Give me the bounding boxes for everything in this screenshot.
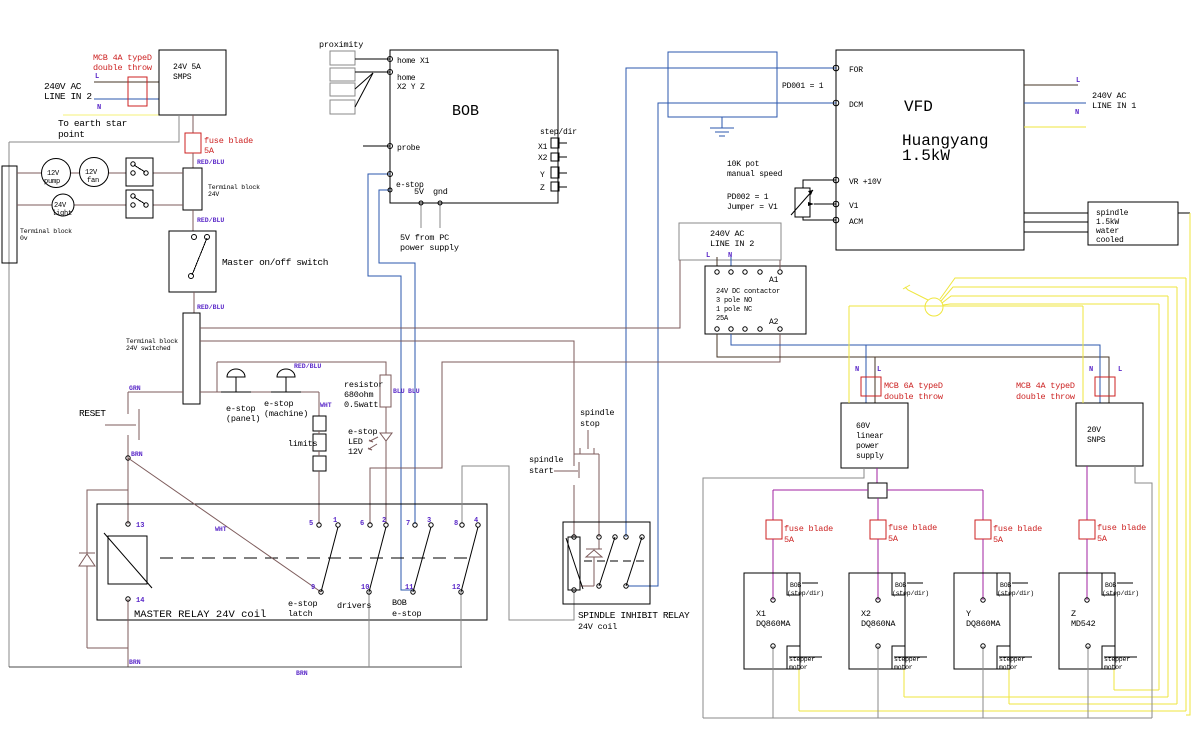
svg-text:X2: X2 — [538, 154, 548, 163]
spindle relay coil — [568, 537, 580, 590]
svg-text:X1: X1 — [756, 609, 766, 619]
svg-text:fuse blade: fuse blade — [784, 524, 833, 534]
svg-text:5A: 5A — [993, 535, 1004, 545]
e-stop (machine) contact — [271, 391, 301, 393]
svg-text:MD542: MD542 — [1071, 619, 1096, 629]
svg-text:5A: 5A — [1097, 534, 1108, 544]
svg-text:RED/BLU: RED/BLU — [197, 217, 224, 224]
svg-text:L: L — [95, 73, 99, 81]
svg-text:MCB 4A typeD: MCB 4A typeD — [1016, 381, 1075, 391]
svg-text:stepper: stepper — [999, 656, 1025, 663]
svg-text:proximity: proximity — [319, 40, 363, 50]
svg-text:24V coil: 24V coil — [578, 622, 617, 632]
svg-text:20V: 20V — [1087, 426, 1101, 435]
svg-text:BOB: BOB — [1000, 582, 1011, 589]
svg-text:GRN: GRN — [129, 385, 141, 392]
svg-text:N: N — [1089, 366, 1093, 374]
svg-text:fan: fan — [87, 177, 99, 185]
wire probe stub — [363, 145, 390, 147]
svg-text:BOB: BOB — [392, 598, 407, 608]
svg-text:BOB: BOB — [895, 582, 906, 589]
wire pin 14 to BRN rail — [127, 599, 129, 667]
wire FOR (blue) to spindle relay — [626, 68, 836, 537]
e-stop (panel) dome — [227, 369, 245, 377]
coil diagonal — [566, 538, 583, 589]
spindle 1.5kW water cooled — [1088, 202, 1178, 245]
svg-text:680ohm: 680ohm — [344, 390, 374, 400]
wire to master switch — [192, 210, 194, 231]
svg-text:power: power — [856, 442, 879, 451]
svg-text:240V AC: 240V AC — [1092, 91, 1126, 101]
svg-text:RED/BLU: RED/BLU — [294, 363, 321, 370]
spindle start NO contact — [573, 454, 575, 466]
wire pin 12 down — [460, 592, 462, 667]
earth star circle — [925, 298, 943, 316]
svg-text:BOB: BOB — [790, 582, 801, 589]
wire A1 stub — [779, 260, 781, 269]
svg-text:spindle: spindle — [580, 408, 614, 418]
svg-text:gnd: gnd — [433, 187, 448, 197]
step/dir pin boxes X1 X2 Y Z — [551, 138, 559, 148]
e-stop (machine) dome — [277, 369, 295, 377]
contact 10-2 — [369, 527, 386, 592]
switch box pump/fan — [126, 158, 153, 186]
ground symbol — [721, 117, 723, 128]
switch contacts light — [131, 194, 135, 198]
wire 5V stub — [420, 203, 422, 228]
wire proximity diagonals — [355, 73, 373, 89]
svg-text:Jumper = V1: Jumper = V1 — [727, 203, 778, 212]
svg-text:Terminal block: Terminal block — [126, 338, 178, 345]
svg-text:Z: Z — [540, 184, 545, 193]
svg-text:12V: 12V — [47, 170, 60, 178]
spindle relay diode wiring — [598, 540, 600, 549]
VFD pins — [833, 65, 839, 71]
svg-text:BLU: BLU — [393, 388, 405, 395]
wire 24V switched to spindle stop — [200, 341, 574, 454]
svg-text:X2 Y Z: X2 Y Z — [397, 83, 425, 92]
diode symbol — [586, 548, 602, 550]
svg-text:5A: 5A — [784, 535, 795, 545]
svg-text:1.5kW: 1.5kW — [902, 147, 950, 165]
svg-text:L: L — [877, 366, 881, 374]
svg-text:latch: latch — [288, 609, 313, 619]
svg-text:1 pole NC: 1 pole NC — [716, 306, 752, 314]
LED e-stop 12V — [380, 432, 392, 434]
svg-text:manual speed: manual speed — [727, 170, 783, 179]
svg-text:13: 13 — [136, 522, 144, 530]
MCB 6A typeD — [861, 377, 881, 396]
svg-text:MASTER RELAY 24V coil: MASTER RELAY 24V coil — [134, 609, 266, 621]
wire N branch to MCB 6A (blue) — [865, 345, 867, 403]
wire left 0V rail — [8, 142, 10, 667]
wire to limits — [318, 392, 320, 416]
svg-text:stepper: stepper — [894, 656, 920, 663]
wire 12V rail — [17, 172, 42, 174]
pot wiper arrow — [791, 190, 813, 215]
flyback diode symbol — [79, 552, 95, 554]
driver Z MD542 — [1059, 573, 1115, 669]
svg-text:double throw: double throw — [884, 392, 944, 402]
wire pin 8 to spindle relay coil — [462, 466, 574, 620]
yellow motor drops — [798, 669, 800, 711]
svg-text:LINE IN 2: LINE IN 2 — [44, 91, 92, 102]
BOB step/dir label lines — [802, 582, 818, 584]
svg-text:start: start — [529, 466, 554, 476]
svg-text:(step/dir): (step/dir) — [892, 590, 929, 597]
wire L stub into contactor — [716, 257, 718, 266]
svg-text:0.5watt: 0.5watt — [344, 400, 378, 410]
svg-text:10K pot: 10K pot — [727, 160, 759, 169]
svg-text:pump: pump — [44, 178, 60, 186]
master switch contacts — [192, 235, 197, 240]
contact 9-1 — [321, 527, 338, 592]
svg-text:BRN: BRN — [131, 451, 143, 458]
BOB pins — [388, 57, 393, 62]
wire LED to relay pin 2 — [385, 441, 387, 524]
svg-text:WHT: WHT — [320, 402, 332, 409]
svg-text:WHT: WHT — [215, 526, 227, 533]
wire limits to relay pin 5 — [318, 471, 320, 524]
svg-text:Y: Y — [966, 609, 971, 619]
svg-text:X1: X1 — [538, 143, 548, 152]
BRN rail — [9, 666, 462, 668]
svg-text:probe: probe — [397, 144, 420, 153]
svg-text:RED/BLU: RED/BLU — [197, 159, 224, 166]
svg-text:3: 3 — [427, 517, 431, 525]
driver Y DQ860MA — [954, 573, 1010, 669]
svg-text:5A: 5A — [204, 146, 215, 156]
svg-text:Y: Y — [540, 171, 545, 180]
svg-text:24V: 24V — [208, 191, 219, 198]
contact B — [626, 537, 642, 586]
wire resistor to LED — [385, 407, 387, 433]
svg-text:(step/dir): (step/dir) — [1102, 590, 1139, 597]
svg-text:limits: limits — [288, 439, 318, 449]
svg-text:BOB: BOB — [1105, 582, 1116, 589]
wire L line-in 1 — [1024, 84, 1078, 86]
wire DCM (blue) to spindle relay — [628, 103, 836, 586]
SPINDLE INHIBIT RELAY box — [563, 522, 650, 604]
wire L branch to MCB 6A — [874, 357, 876, 403]
driver X1 DQ860MA — [744, 573, 800, 669]
BRN node — [126, 456, 130, 460]
wire earth line-in 1 — [1024, 126, 1086, 128]
svg-text:Z: Z — [1071, 609, 1076, 619]
wire BOB e-stop 1 (blue) to relay pin 11 — [368, 174, 413, 592]
svg-text:A1: A1 — [769, 276, 779, 285]
wire spindle earth stub — [1178, 212, 1190, 214]
svg-text:10: 10 — [361, 584, 369, 592]
svg-text:0v: 0v — [20, 235, 28, 242]
yellow motor weave horizontals — [799, 710, 1186, 712]
svg-text:FOR: FOR — [849, 66, 863, 75]
wire e-stop chain from terminal block — [200, 391, 319, 393]
MASTER RELAY box — [97, 504, 487, 620]
svg-text:25A: 25A — [716, 315, 729, 323]
svg-text:stepper: stepper — [1104, 656, 1130, 663]
svg-text:supply: supply — [856, 452, 884, 461]
svg-text:V1: V1 — [849, 202, 859, 211]
gray bus bottom — [703, 717, 1152, 719]
yellow bundle verticals down right side — [1185, 278, 1187, 711]
wire ACM — [803, 217, 836, 220]
svg-text:fuse blade: fuse blade — [993, 524, 1042, 534]
svg-text:9: 9 — [311, 584, 315, 592]
svg-text:ACM: ACM — [849, 218, 863, 227]
contactor pins top — [715, 270, 719, 274]
wire spindle stop to relay pin — [598, 454, 600, 537]
Master on/off switch — [169, 231, 216, 292]
wire N out of contactor to MCBs (blue) — [731, 334, 1100, 403]
svg-text:L: L — [1118, 366, 1122, 374]
contact A — [599, 537, 615, 586]
svg-text:water: water — [1096, 227, 1119, 236]
svg-text:7: 7 — [406, 520, 410, 528]
wire earth to star point — [63, 114, 159, 116]
svg-text:DQ860MA: DQ860MA — [756, 619, 791, 629]
svg-text:14: 14 — [136, 597, 144, 605]
svg-text:fuse blade: fuse blade — [204, 136, 253, 146]
svg-text:cooled: cooled — [1096, 236, 1124, 245]
svg-text:12V: 12V — [348, 447, 364, 457]
pins top — [572, 535, 576, 539]
wire gnd stub — [439, 203, 441, 228]
wire fuse to terminal block 24V — [192, 153, 194, 168]
12V pump — [42, 159, 71, 188]
svg-text:60V: 60V — [856, 422, 870, 431]
svg-text:e-stop: e-stop — [348, 427, 378, 437]
MCB 4A typeD double throw — [128, 77, 147, 106]
resistor 680ohm 0.5watt — [380, 375, 391, 407]
wire home X1 — [355, 58, 390, 60]
svg-text:5V: 5V — [414, 187, 425, 197]
svg-text:LINE IN 1: LINE IN 1 — [1092, 101, 1136, 111]
svg-text:fuse blade: fuse blade — [1097, 523, 1146, 533]
svg-text:spindle: spindle — [529, 455, 563, 465]
12V fan — [80, 158, 109, 187]
svg-text:stepper: stepper — [789, 656, 815, 663]
contactor pins bottom — [715, 327, 719, 331]
svg-text:12: 12 — [452, 584, 460, 592]
pin circles top — [126, 522, 130, 526]
svg-text:(machine): (machine) — [264, 409, 308, 419]
svg-text:VFD: VFD — [904, 98, 933, 116]
svg-text:MCB 6A typeD: MCB 6A typeD — [884, 381, 943, 391]
svg-text:linear: linear — [856, 432, 884, 441]
VFD Huangyang 1.5kW — [836, 50, 1024, 250]
wire N line-in 1 — [1024, 102, 1086, 104]
wire SMPS +24V out — [192, 115, 194, 133]
svg-text:drivers: drivers — [337, 601, 371, 611]
svg-text:RESET: RESET — [79, 408, 106, 419]
svg-text:spindle: spindle — [1096, 209, 1129, 218]
wire 24V light rail — [17, 204, 52, 206]
svg-text:Master on/off switch: Master on/off switch — [222, 257, 328, 268]
wire 60V supply left out (gray) — [703, 468, 864, 718]
24V DC contactor — [705, 266, 806, 334]
wire 60V supply to junction (purple) — [876, 468, 878, 483]
svg-text:L: L — [706, 252, 710, 260]
dashed link line — [160, 557, 470, 559]
svg-text:24V switched: 24V switched — [126, 345, 171, 352]
svg-text:12V: 12V — [85, 169, 98, 177]
svg-text:6: 6 — [360, 520, 364, 528]
svg-text:N: N — [728, 252, 732, 260]
control loop box (blue) — [668, 52, 777, 117]
svg-text:5V from PC: 5V from PC — [400, 233, 449, 243]
fuse blade 5A (24V) — [185, 133, 201, 153]
wire V1 wiper — [814, 203, 836, 205]
wire 24V switched to contactor coil circuit — [200, 260, 680, 328]
svg-text:light: light — [52, 210, 72, 218]
svg-text:4: 4 — [474, 517, 478, 525]
terminal block 0v — [2, 166, 17, 263]
svg-text:3 pole NO: 3 pole NO — [716, 297, 752, 305]
wire N line-in 2 — [94, 98, 159, 100]
svg-text:1.5kW: 1.5kW — [1096, 218, 1119, 227]
svg-text:motor: motor — [999, 664, 1018, 671]
junction box — [868, 483, 887, 498]
svg-text:LINE IN 2: LINE IN 2 — [710, 239, 754, 249]
240V AC LINE IN 2 box (gray) — [679, 223, 781, 260]
contact 11-3 — [413, 527, 431, 592]
svg-text:N: N — [1075, 109, 1079, 117]
SMPS 24V 5A — [159, 50, 226, 115]
terminal block 24V switched — [183, 313, 200, 404]
svg-text:stop: stop — [580, 419, 600, 429]
svg-text:11: 11 — [405, 584, 413, 592]
earth rays to right bundle — [940, 278, 1186, 299]
24V light — [52, 194, 74, 216]
svg-text:N: N — [855, 366, 859, 374]
svg-text:5: 5 — [309, 520, 313, 528]
svg-text:24V DC contactor: 24V DC contactor — [716, 288, 780, 296]
wire BOB e-stop 2 (blue) to relay pin 7 — [379, 190, 415, 524]
svg-text:2: 2 — [382, 517, 386, 525]
purple bus — [773, 489, 868, 491]
svg-text:DQ860MA: DQ860MA — [966, 619, 1001, 629]
svg-text:motor: motor — [894, 664, 913, 671]
driver X2 DQ860NA — [849, 573, 905, 669]
svg-text:home: home — [397, 74, 416, 83]
wire VR +10V — [803, 180, 836, 188]
svg-text:1: 1 — [333, 517, 337, 525]
svg-text:double throw: double throw — [93, 63, 153, 73]
driver pins — [771, 598, 775, 602]
svg-text:24V: 24V — [54, 202, 67, 210]
svg-text:MCB 4A typeD: MCB 4A typeD — [93, 53, 152, 63]
wire spindle earth (yellow) down right edge — [1186, 213, 1190, 715]
limit switch boxes — [313, 416, 326, 431]
svg-text:A2: A2 — [769, 318, 779, 327]
svg-text:RED/BLU: RED/BLU — [197, 304, 224, 311]
svg-text:BRN: BRN — [296, 670, 308, 677]
wire L out of contactor to MCBs — [717, 334, 1109, 403]
wire BRN node to relay pin 13 — [127, 458, 129, 524]
e-stop (panel) contact — [221, 391, 251, 393]
terminal block 24V — [183, 168, 202, 210]
contact 12-4 — [461, 527, 478, 592]
switch box light — [126, 190, 153, 218]
switch contacts pump/fan — [131, 162, 135, 166]
wire RED/BLU to resistor — [217, 362, 386, 375]
coil diagonal — [104, 533, 152, 588]
svg-text:BRN: BRN — [129, 659, 141, 666]
wire L line-in 2 — [94, 81, 159, 83]
svg-text:motor: motor — [789, 664, 808, 671]
svg-text:VR +10V: VR +10V — [849, 178, 882, 187]
purple feeds into drivers — [772, 539, 774, 600]
svg-text:L: L — [1076, 77, 1080, 85]
svg-text:double throw: double throw — [1016, 392, 1076, 402]
svg-text:fuse blade: fuse blade — [888, 523, 937, 533]
svg-text:(panel): (panel) — [226, 414, 260, 424]
svg-text:240V AC: 240V AC — [710, 229, 744, 239]
svg-text:SNPS: SNPS — [1087, 436, 1106, 445]
svg-text:e-stop: e-stop — [288, 599, 318, 609]
wire pin 10 down — [368, 592, 370, 667]
wire SNPS gray return — [1135, 466, 1152, 718]
svg-text:LED: LED — [348, 437, 363, 447]
svg-text:PD002 = 1: PD002 = 1 — [727, 193, 769, 202]
BOB board — [390, 50, 558, 203]
svg-text:To earth star: To earth star — [58, 118, 127, 129]
svg-text:5A: 5A — [888, 534, 899, 544]
gray returns from drivers — [772, 646, 774, 718]
svg-text:power supply: power supply — [400, 243, 459, 253]
svg-text:(step/dir): (step/dir) — [787, 590, 824, 597]
60V linear power supply — [841, 403, 908, 468]
WHT wire diagonal to pin 9 — [128, 458, 321, 592]
svg-text:X2: X2 — [861, 609, 871, 619]
stepper label strikethrough lines — [789, 656, 822, 658]
svg-text:Terminal block: Terminal block — [20, 228, 72, 235]
wire GRN reset to terminal block — [128, 391, 183, 393]
svg-text:BOB: BOB — [452, 103, 479, 120]
svg-text:resistor: resistor — [344, 380, 383, 390]
relay coil — [108, 536, 147, 584]
svg-text:(step/dir): (step/dir) — [997, 590, 1034, 597]
svg-text:point: point — [58, 129, 85, 140]
wire SMPS 0V out to left rail — [9, 115, 179, 142]
wire home X2 — [355, 71, 390, 73]
svg-text:Terminal block: Terminal block — [208, 184, 260, 191]
svg-text:BLU: BLU — [408, 388, 420, 395]
svg-text:SMPS: SMPS — [173, 73, 192, 82]
svg-text:DQ860NA: DQ860NA — [861, 619, 896, 629]
svg-text:motor: motor — [1104, 664, 1123, 671]
reset switch bar — [138, 409, 140, 440]
svg-text:e-stop: e-stop — [264, 399, 294, 409]
wire A2 to master relay pin 6 — [370, 334, 780, 524]
svg-text:e-stop: e-stop — [392, 609, 422, 619]
pins bottom — [572, 588, 576, 592]
20V SNPS — [1076, 403, 1143, 466]
wire N stub into contactor (blue) — [730, 257, 732, 266]
earth ray sketch — [905, 287, 928, 300]
spindle stop NC contact — [574, 453, 599, 455]
svg-text:N: N — [97, 104, 101, 112]
svg-text:step/dir: step/dir — [540, 128, 577, 137]
flyback diode wiring — [87, 490, 128, 553]
pin circles bottom — [126, 597, 130, 601]
svg-text:e-stop: e-stop — [226, 404, 256, 414]
MCB 4A typeD (second) — [1095, 377, 1115, 396]
wire VFD to spindle (3 phases) — [1024, 212, 1088, 214]
fuse blades — [766, 520, 782, 539]
svg-text:PD001 = 1: PD001 = 1 — [782, 82, 824, 91]
